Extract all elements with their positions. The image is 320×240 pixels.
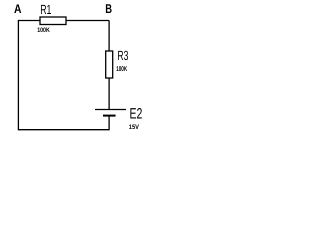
svg-text:E2: E2 (130, 105, 143, 122)
battery E2 positive plate (95, 109, 126, 111)
resistor R1 (40, 17, 66, 25)
wire left (A down to bottom) (17, 20, 19, 130)
svg-text:100K: 100K (37, 27, 50, 34)
svg-text:15V: 15V (129, 124, 140, 131)
svg-text:100K: 100K (116, 66, 127, 73)
svg-text:B: B (105, 2, 112, 16)
resistor R3 (106, 51, 113, 78)
wire right (B down to battery + terminal) (108, 21, 110, 110)
battery E2 negative plate (103, 115, 116, 117)
wire battery - terminal to bottom wire (108, 116, 110, 131)
wire top (A to B) (18, 20, 109, 22)
svg-text:R1: R1 (40, 2, 51, 17)
svg-text:A: A (14, 2, 22, 16)
wire bottom (18, 129, 109, 131)
svg-text:R3: R3 (117, 48, 128, 63)
